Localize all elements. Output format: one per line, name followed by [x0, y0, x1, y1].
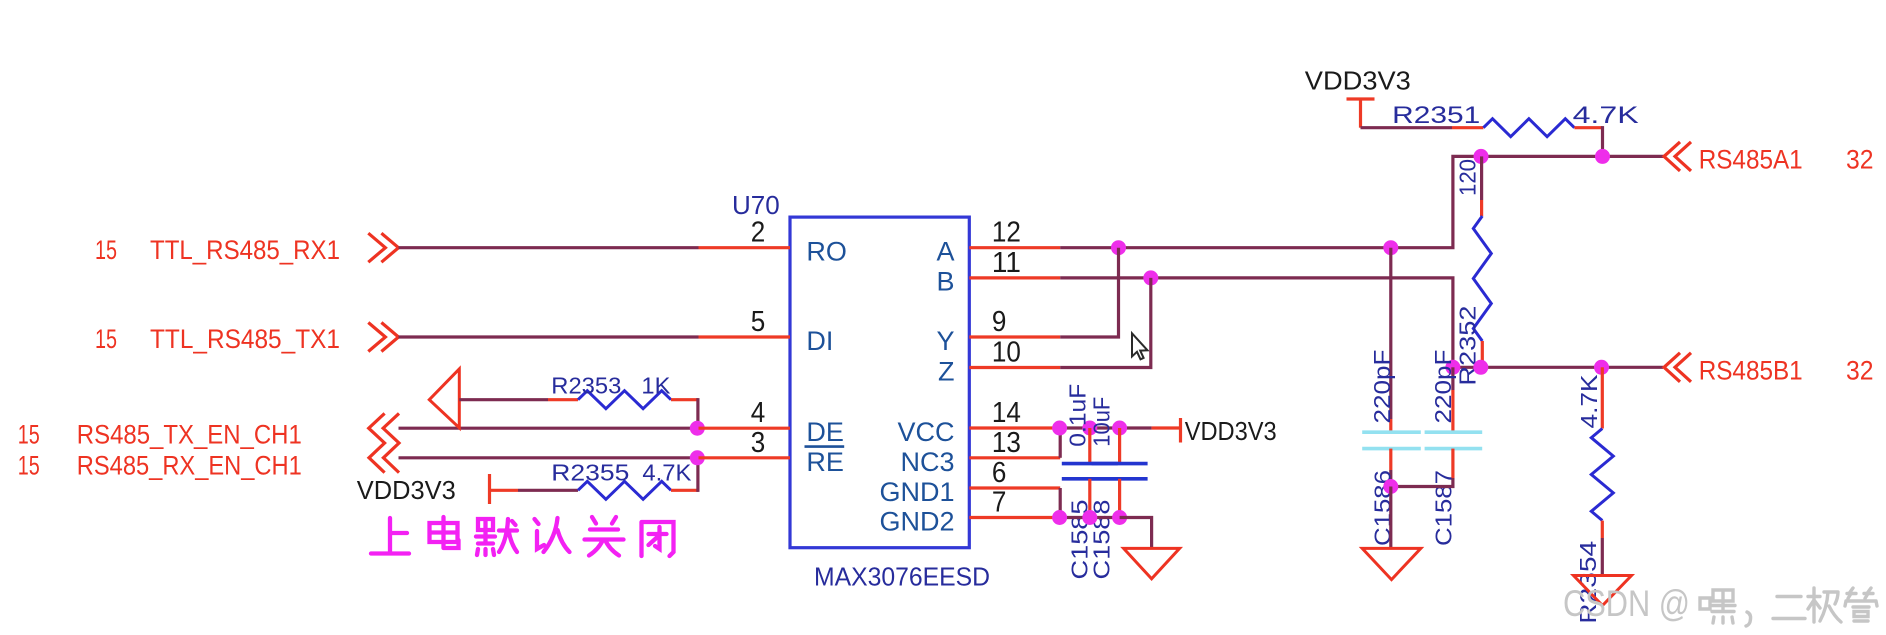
svg-text:RS485A1: RS485A1 — [1699, 144, 1803, 174]
svg-text:TTL_RS485_TX1: TTL_RS485_TX1 — [150, 324, 340, 354]
svg-text:VDD3V3: VDD3V3 — [1185, 416, 1277, 446]
wire R2353 left segment — [459, 398, 548, 401]
pin 6 (GND1) — [969, 457, 1060, 489]
resistor R2352 — [1454, 156, 1491, 385]
pin 5 (DI) — [699, 306, 791, 338]
junction VCC-C1588 — [1112, 421, 1127, 436]
svg-text:DI: DI — [806, 326, 833, 356]
svg-text:32: 32 — [1846, 355, 1874, 385]
svg-text:220pF: 220pF — [1430, 350, 1456, 424]
svg-text:MAX3076EESD: MAX3076EESD — [814, 562, 990, 592]
pin 3 (RE) — [699, 427, 791, 459]
svg-text:R2352: R2352 — [1454, 306, 1480, 386]
mouse cursor — [1132, 333, 1148, 359]
svg-text:0.1uF: 0.1uF — [1065, 384, 1091, 447]
pin 12 (A) — [969, 217, 1060, 249]
svg-text:RO: RO — [806, 237, 847, 267]
label MAX3076EESD — [814, 562, 990, 592]
port RS485_RX_EN_CH1 sheet entry — [18, 451, 302, 481]
svg-text:7: 7 — [992, 487, 1007, 519]
text power-on default off (CJK magenta) — [371, 517, 674, 556]
svg-text:Z: Z — [938, 357, 955, 387]
junction RE node — [690, 450, 705, 465]
junction GND-GND1 — [1052, 510, 1067, 525]
pin name Z — [938, 357, 955, 387]
svg-text:14: 14 — [992, 397, 1021, 429]
power VDD3V3 left bar — [357, 474, 490, 505]
pin name GND1 — [879, 477, 954, 507]
pin 11 (B) — [969, 247, 1060, 279]
svg-text:GND2: GND2 — [879, 506, 954, 536]
svg-text:DE: DE — [806, 417, 844, 447]
wire VCC row — [1060, 426, 1151, 429]
port TTL_RS485_TX1 sheet entry — [95, 323, 399, 355]
svg-text:R2351: R2351 — [1392, 102, 1480, 129]
svg-text:32: 32 — [1846, 144, 1874, 174]
svg-text:RE: RE — [806, 447, 844, 477]
resistor R2353 — [548, 373, 698, 409]
pin 14 (VCC) — [969, 397, 1060, 429]
svg-text:R2353: R2353 — [551, 373, 621, 399]
svg-text:RS485_RX_EN_CH1: RS485_RX_EN_CH1 — [77, 451, 302, 481]
svg-text:11: 11 — [992, 247, 1021, 279]
svg-text:2: 2 — [751, 217, 766, 249]
wire GND row — [1060, 516, 1119, 519]
junction B1-R2354 — [1594, 360, 1609, 375]
pin 2 (RO) — [699, 217, 791, 249]
ground symbol under R2354 — [1574, 576, 1632, 606]
pin name RO — [806, 237, 847, 267]
svg-text:3: 3 — [751, 427, 766, 459]
junction GND-C1585 — [1082, 510, 1097, 525]
wire R2355 to RE — [696, 458, 699, 491]
svg-text:13: 13 — [992, 427, 1021, 459]
capacitor C1585 — [1062, 384, 1118, 580]
wire net B to RS485B1 — [1060, 278, 1663, 367]
junction DE node — [690, 421, 705, 436]
svg-text:15: 15 — [18, 451, 40, 481]
wire NC3 riser — [1059, 428, 1062, 458]
pin 13 (NC3) — [969, 427, 1060, 459]
port RS485_TX_EN_CH1 sheet entry — [18, 419, 302, 449]
svg-text:TTL_RS485_RX1: TTL_RS485_RX1 — [150, 235, 340, 265]
junction B1-R2352 — [1473, 360, 1488, 375]
pin 7 (GND2) — [969, 487, 1060, 519]
svg-text:4.7K: 4.7K — [1573, 102, 1639, 129]
port TTL_RS485_RX1 sheet entry — [95, 233, 399, 265]
svg-text:GND1: GND1 — [879, 477, 954, 507]
pin 4 (DE) — [699, 397, 791, 429]
pin name A — [936, 237, 954, 267]
svg-text:120: 120 — [1454, 159, 1480, 196]
svg-text:CSDN @: CSDN @ — [1563, 583, 1690, 624]
junction VCC-NC3 — [1052, 421, 1067, 436]
svg-text:RS485B1: RS485B1 — [1699, 355, 1803, 385]
power VDD3V3 right bar — [1152, 416, 1277, 446]
svg-text:4.7K: 4.7K — [1576, 374, 1602, 429]
wire GND1 dropper — [1059, 488, 1062, 518]
wire net TTL_RS485_TX1 — [399, 335, 699, 338]
resistor R2351 — [1361, 102, 1639, 137]
svg-text:R2355: R2355 — [551, 460, 629, 486]
svg-text:6: 6 — [992, 457, 1007, 489]
junction A-C1586 — [1383, 240, 1398, 255]
pin name RE — [806, 447, 844, 477]
svg-text:1K: 1K — [641, 373, 671, 399]
wire C1586 to ground — [1389, 487, 1392, 549]
ground symbol under U70 — [1124, 548, 1180, 578]
pin name DE (active low) — [805, 417, 845, 447]
svg-text:B: B — [936, 267, 954, 297]
svg-text:10: 10 — [992, 337, 1021, 369]
pin 9 (Y) — [969, 306, 1060, 338]
svg-text:10uF: 10uF — [1089, 397, 1115, 447]
svg-text:5: 5 — [751, 306, 766, 338]
svg-text:220pF: 220pF — [1369, 350, 1395, 424]
port RS485B1 — [1664, 353, 1874, 386]
svg-text:4.7K: 4.7K — [642, 460, 692, 486]
junction C1586-C1587 — [1383, 479, 1398, 494]
wire net Z — [1060, 278, 1151, 368]
wire net Y — [1060, 248, 1118, 337]
svg-text:15: 15 — [95, 324, 117, 354]
ground symbol under C1586 — [1362, 548, 1421, 579]
svg-text:15: 15 — [18, 419, 40, 449]
watermark CSDN — [1563, 583, 1877, 626]
pin name DI — [806, 326, 833, 356]
junction A-Y — [1111, 240, 1126, 255]
svg-text:12: 12 — [992, 217, 1021, 249]
pin name Y — [936, 326, 954, 356]
svg-text:A: A — [936, 237, 954, 267]
svg-text:VDD3V3: VDD3V3 — [1305, 66, 1411, 96]
wire C1587 to C1586 — [1391, 478, 1453, 487]
svg-text:NC3: NC3 — [900, 447, 954, 477]
svg-text:RS485_TX_EN_CH1: RS485_TX_EN_CH1 — [77, 419, 302, 449]
junction A-R2351 — [1595, 149, 1610, 164]
wire GND down — [1120, 518, 1152, 549]
power VDD3V3 top — [1305, 66, 1411, 128]
chevrons EN ports — [369, 413, 399, 472]
wire R2353 to DE — [696, 400, 699, 429]
triangle marker (off-sheet) on DE net — [429, 369, 459, 428]
capacitor C1586 — [1362, 248, 1421, 546]
svg-text:VCC: VCC — [897, 417, 954, 447]
wire net RS485_TX_EN_CH1 (DE) — [399, 427, 697, 430]
capacitor C1587 — [1425, 350, 1483, 547]
resistor R2355 — [490, 460, 698, 500]
junction GND-C1588 — [1112, 510, 1127, 525]
svg-text:VDD3V3: VDD3V3 — [357, 475, 456, 505]
svg-text:U70: U70 — [732, 190, 780, 220]
svg-text:15: 15 — [95, 235, 117, 265]
IC U70 body — [790, 217, 969, 548]
port RS485A1 — [1664, 142, 1874, 175]
capacitor C1588 — [1089, 397, 1148, 580]
junction VCC-C1585 — [1082, 421, 1097, 436]
junction A-R2352 — [1474, 149, 1489, 164]
pin name GND2 — [879, 506, 954, 536]
junction B-Z — [1143, 270, 1158, 285]
svg-text:9: 9 — [992, 306, 1007, 338]
pin 10 (Z) — [969, 337, 1060, 369]
pin name B — [936, 267, 954, 297]
junction B1-C1587 — [1445, 360, 1460, 375]
wire net RS485_RX_EN_CH1 (RE) — [399, 456, 697, 459]
wire R2351 to net A — [1601, 128, 1604, 157]
pin name VCC — [897, 417, 954, 447]
label U70 — [732, 190, 780, 220]
wire net A to RS485A1 — [1060, 156, 1663, 247]
resistor R2354 — [1575, 367, 1613, 624]
svg-text:Y: Y — [936, 326, 954, 356]
svg-text:4: 4 — [751, 397, 766, 429]
pin name NC3 — [900, 447, 954, 477]
wire net TTL_RS485_RX1 — [399, 246, 699, 249]
